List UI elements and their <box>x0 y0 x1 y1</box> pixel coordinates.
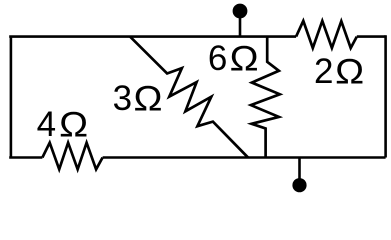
svg-text:Ω: Ω <box>335 53 364 92</box>
resistor 6-ohm vertical branch <box>251 37 280 158</box>
wire: top edge from left corner to 2-ohm resistor <box>9 35 296 38</box>
wire: left edge of loop <box>10 37 13 158</box>
resistor 4-ohm zigzag (bottom edge) <box>42 143 102 170</box>
resistor 3-ohm diagonal branch <box>130 37 248 158</box>
svg-text:Ω: Ω <box>59 106 88 145</box>
svg-text:Ω: Ω <box>134 80 163 119</box>
svg-text:6: 6 <box>208 39 227 78</box>
wire: bottom terminal stem <box>298 158 301 183</box>
svg-text:Ω: Ω <box>230 40 259 79</box>
wire: top terminal stem <box>239 13 242 37</box>
wire: bottom edge right of 4-ohm resistor <box>103 156 386 159</box>
svg-text:2: 2 <box>314 52 333 91</box>
svg-text:4: 4 <box>37 105 56 144</box>
node: bottom terminal dot <box>292 178 306 192</box>
wire: top edge right of 2-ohm resistor <box>357 35 386 38</box>
node: top terminal dot <box>233 4 248 19</box>
wire: bottom edge left of 4-ohm resistor <box>9 156 42 159</box>
svg-text:3: 3 <box>113 79 132 118</box>
wire: right edge of loop <box>384 35 387 157</box>
resistor 2-ohm zigzag (top edge) <box>296 21 357 48</box>
